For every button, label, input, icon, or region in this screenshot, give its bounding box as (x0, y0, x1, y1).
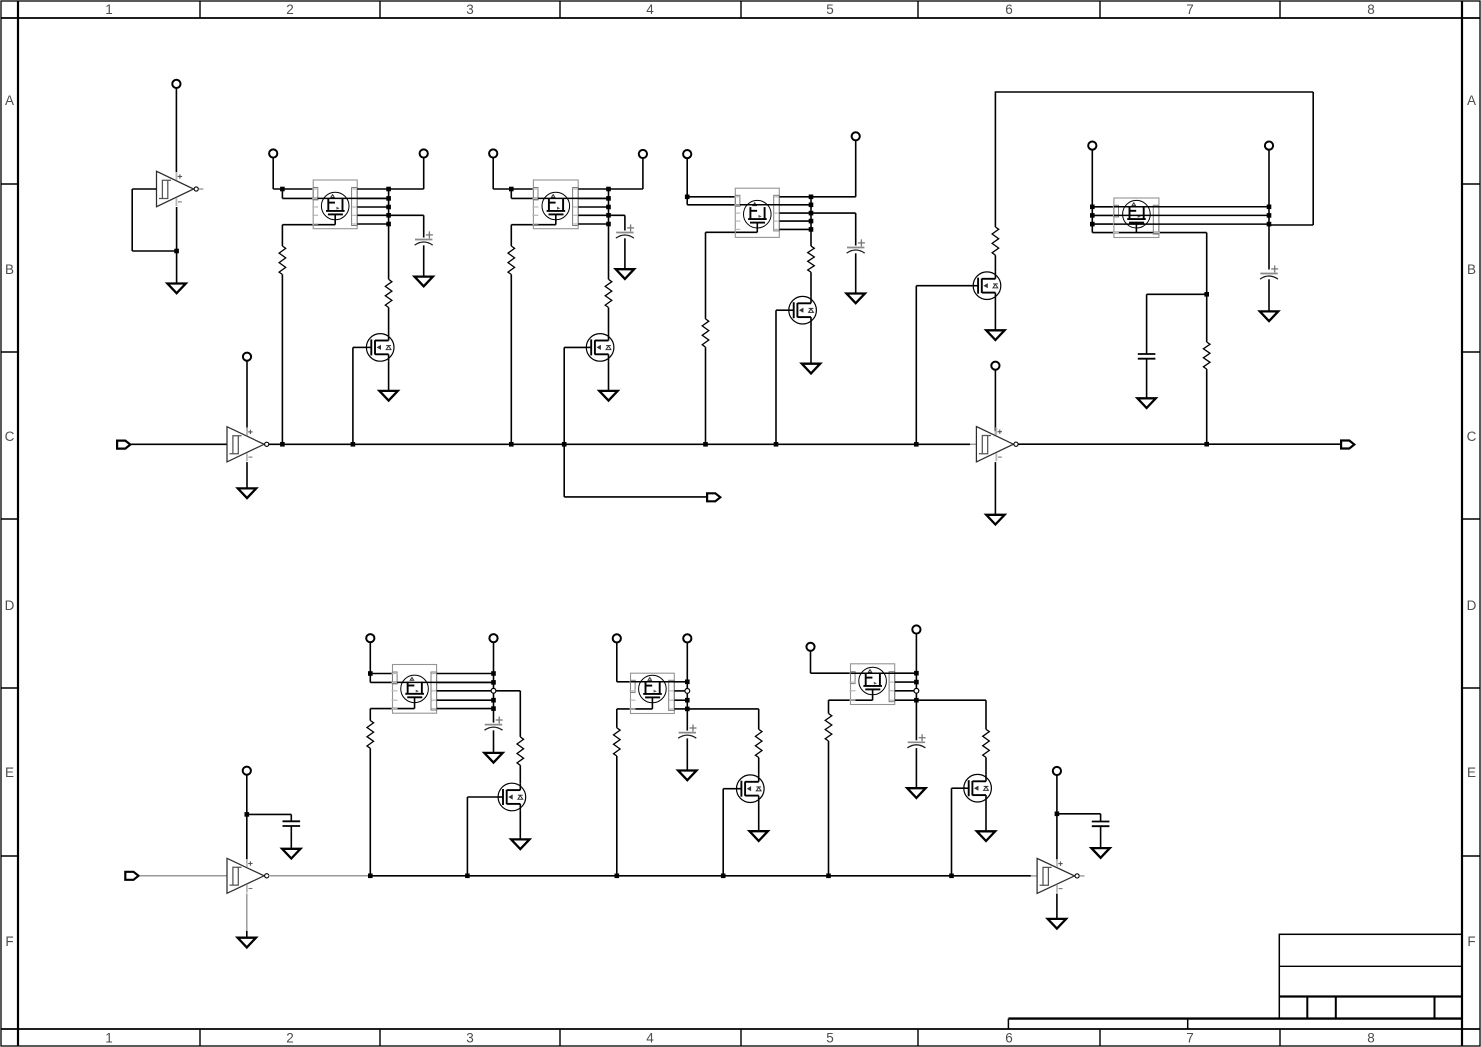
package pin wire (895, 690, 917, 692)
resistor R10 (517, 737, 524, 765)
junction (509, 442, 514, 447)
wire (369, 748, 371, 876)
resistor R1 (279, 246, 286, 275)
wire (994, 370, 996, 431)
ground G1 (167, 284, 185, 294)
resistor R14 (983, 729, 990, 757)
svg-text:C: C (1467, 429, 1477, 444)
wire (246, 775, 248, 860)
connector pin J16 (806, 643, 814, 651)
ground G7 (599, 391, 617, 401)
wire (994, 91, 996, 227)
MOSFET Q10 (498, 783, 526, 811)
wire (370, 673, 392, 675)
MOSFET Q2 (366, 334, 394, 362)
ground G21 (1091, 848, 1109, 858)
wire (705, 232, 707, 319)
connector pin J10 (1088, 142, 1096, 150)
wire (246, 894, 248, 931)
wire (1147, 293, 1207, 295)
package pin wire (674, 690, 687, 692)
ground G3 (986, 515, 1004, 525)
wire (775, 310, 777, 444)
wire (608, 189, 610, 224)
port P4 (input) (125, 872, 138, 880)
ground G19 (907, 788, 925, 798)
wire (686, 197, 688, 205)
junction (703, 442, 708, 447)
package pin wire (437, 681, 494, 683)
wire (616, 643, 618, 682)
ground G22 (1048, 919, 1066, 929)
svg-text:A: A (1467, 93, 1476, 108)
wire (369, 643, 371, 674)
junction (491, 698, 496, 703)
wire (995, 91, 1313, 93)
junction (809, 195, 814, 200)
junction (685, 195, 690, 200)
resistor R6 (808, 246, 815, 272)
junction (351, 442, 356, 447)
wire (1268, 150, 1270, 270)
wire (915, 634, 917, 741)
package pin wire (357, 188, 388, 190)
output stub (199, 188, 204, 190)
svg-text:4: 4 (646, 2, 654, 17)
svg-text:7: 7 (1186, 2, 1194, 17)
ground G20 (977, 831, 995, 841)
open pin (685, 689, 690, 694)
MOSFET Q7 (973, 272, 1001, 300)
dual MOSFET package Q11 (630, 673, 676, 713)
junction (174, 249, 179, 254)
wire (1206, 294, 1208, 342)
wire (608, 224, 610, 279)
junction (809, 227, 814, 232)
wire (1146, 359, 1148, 399)
svg-text:4: 4 (646, 1031, 654, 1046)
package pin wire (779, 204, 811, 206)
wire (1268, 279, 1270, 311)
wire (686, 738, 688, 770)
wire (608, 361, 610, 391)
package pin wire (578, 214, 608, 216)
polarized capacitor C2 (616, 224, 634, 238)
junction (562, 442, 567, 447)
wire (915, 286, 917, 445)
wire (510, 189, 512, 198)
junction (368, 874, 373, 879)
wire (369, 674, 371, 683)
wire (740, 204, 811, 206)
connector pin J13 (489, 634, 497, 642)
package pin wire (779, 196, 811, 198)
junction (1267, 205, 1272, 210)
wire (1114, 206, 1269, 208)
wire (246, 462, 248, 488)
wire (389, 214, 424, 216)
wire (370, 681, 397, 683)
op-amp buffer U4 (227, 858, 269, 893)
wire (130, 443, 227, 445)
wire (290, 826, 292, 849)
junction (606, 196, 611, 201)
svg-text:D: D (5, 598, 15, 613)
wire (466, 797, 468, 876)
supply stub (175, 172, 177, 180)
wire (131, 189, 133, 251)
junction (386, 196, 391, 201)
wire (511, 224, 556, 226)
wire (776, 309, 789, 311)
ground G14 (238, 938, 256, 948)
package pin wire (437, 708, 494, 710)
wire (985, 802, 987, 831)
package pin wire (779, 220, 811, 222)
wire (952, 787, 964, 789)
wire (1091, 150, 1093, 233)
connector pin J19 (1053, 767, 1061, 775)
package pin wire (578, 197, 608, 199)
wire (423, 245, 425, 276)
wire (563, 444, 565, 497)
wire (616, 709, 618, 728)
dual MOSFET package Q3 (532, 180, 579, 229)
svg-text:6: 6 (1005, 1031, 1013, 1046)
resistor R13 (825, 714, 832, 742)
wire (952, 875, 1031, 877)
dual MOSFET package Q8 (1113, 198, 1160, 238)
junction (1204, 442, 1209, 447)
open pin (491, 688, 496, 693)
output stub (1079, 875, 1084, 877)
wire (281, 225, 283, 246)
wire (608, 308, 610, 334)
junction (914, 671, 919, 676)
wire (994, 462, 996, 515)
svg-text:C: C (5, 429, 15, 444)
junction (826, 874, 831, 879)
junction (606, 205, 611, 210)
junction (386, 187, 391, 192)
junction (1204, 292, 1209, 297)
MOSFET Q12 (737, 775, 765, 803)
junction (606, 187, 611, 192)
wire (855, 253, 857, 293)
junction (1090, 222, 1095, 227)
wire (1114, 214, 1269, 216)
wire (538, 197, 609, 199)
wire (352, 347, 354, 444)
connector pin J3 (269, 149, 277, 157)
svg-text:5: 5 (826, 2, 834, 17)
svg-text:E: E (1467, 765, 1476, 780)
ground G4 (415, 277, 433, 287)
wire (1100, 826, 1102, 848)
junction (914, 698, 919, 703)
svg-text:2: 2 (286, 2, 294, 17)
connector pin J1 (172, 80, 180, 88)
package pin wire (674, 708, 687, 710)
junction (615, 874, 620, 879)
wire (564, 496, 707, 498)
wire (723, 788, 736, 790)
wire (810, 197, 812, 230)
ground G11 (1260, 311, 1278, 321)
ground G13 (282, 849, 300, 859)
junction (465, 874, 470, 879)
MOSFET Q14 (964, 774, 992, 802)
wire (281, 275, 283, 445)
op-amp buffer U3 (976, 427, 1018, 462)
connector pin J12 (366, 634, 374, 642)
junction (606, 213, 611, 218)
wire (705, 347, 707, 444)
MOSFET Q4 (586, 334, 614, 362)
junction (949, 874, 954, 879)
wire (273, 188, 313, 190)
wire (1100, 814, 1102, 822)
wire (1056, 894, 1058, 919)
package pin wire (578, 223, 608, 225)
package pin wire (916, 699, 986, 701)
junction (685, 680, 690, 685)
MOSFET Q6 (789, 296, 817, 324)
package pin wire (895, 672, 917, 674)
resistor R5 (702, 319, 709, 347)
package pin wire (578, 206, 608, 208)
package pin wire (687, 708, 758, 710)
wire (388, 361, 390, 391)
connector pin J8 (852, 132, 860, 140)
svg-text:5: 5 (826, 1031, 834, 1046)
junction (1090, 205, 1095, 210)
wire (810, 324, 812, 364)
package pin wire (494, 690, 521, 692)
wire (624, 238, 626, 269)
wire (829, 699, 873, 701)
wire (1146, 294, 1148, 354)
wire (855, 141, 857, 197)
wire (281, 189, 283, 198)
wire (389, 188, 424, 190)
ground G2 (238, 488, 256, 498)
connector pin J18 (243, 767, 251, 775)
package pin wire (1092, 232, 1206, 234)
package pin wire (1092, 206, 1114, 208)
op-amp buffer U2 (227, 427, 269, 462)
polarized capacitor C5 (1260, 265, 1278, 279)
svg-text:1: 1 (105, 2, 113, 17)
dual MOSFET package Q9 (392, 665, 438, 714)
resistor R2 (385, 279, 392, 307)
wire (687, 204, 740, 206)
supply stub (994, 431, 996, 436)
connector pin J15 (683, 634, 691, 642)
polarized capacitor C3 (847, 239, 865, 253)
wire (370, 708, 414, 710)
package pin wire (895, 681, 917, 683)
wire (1269, 224, 1313, 226)
wire (467, 796, 498, 798)
ground G5 (379, 391, 397, 401)
wire (916, 285, 973, 287)
wire (388, 189, 390, 224)
wire (564, 346, 586, 348)
junction (914, 680, 919, 685)
wire (1056, 775, 1058, 860)
svg-text:8: 8 (1367, 2, 1375, 17)
package pin wire (779, 212, 811, 214)
resistor R11 (614, 728, 621, 756)
wire (1206, 369, 1208, 444)
junction (685, 707, 690, 712)
wire (758, 709, 760, 729)
input stub (970, 443, 976, 445)
ground G9 (802, 364, 820, 374)
wire (811, 196, 856, 198)
connector pin J17 (912, 625, 920, 633)
polarized capacitor C8 (485, 717, 503, 731)
wire (519, 691, 521, 737)
resistor R9 (367, 721, 374, 749)
resistor R3 (508, 246, 515, 275)
junction (386, 222, 391, 227)
connector pin J5 (489, 149, 497, 157)
op-amp buffer U1 (157, 171, 199, 206)
wire (609, 188, 643, 190)
wire (828, 741, 830, 876)
wire (519, 811, 521, 840)
connector pin J4 (420, 149, 428, 157)
wire (269, 443, 971, 445)
dual MOSFET package Q5 (734, 188, 780, 237)
svg-text:2: 2 (286, 1031, 294, 1046)
ground G16 (511, 839, 529, 849)
wire (631, 681, 688, 683)
ground G10 (986, 330, 1004, 340)
junction (606, 222, 611, 227)
wire (617, 708, 653, 710)
wire (563, 347, 565, 444)
svg-text:B: B (1467, 262, 1476, 277)
wire (758, 758, 760, 775)
junction (245, 812, 250, 817)
wire (609, 214, 625, 216)
wire (510, 225, 512, 246)
connector pin J9 (991, 362, 999, 370)
wire (1312, 92, 1314, 225)
junction (1055, 812, 1060, 817)
resistor R12 (755, 729, 762, 757)
package pin wire (357, 214, 388, 216)
wire (994, 300, 996, 331)
junction (386, 213, 391, 218)
wire (915, 748, 917, 788)
svg-text:E: E (5, 765, 14, 780)
wire (370, 875, 951, 877)
svg-text:3: 3 (466, 2, 474, 17)
wire (616, 756, 618, 876)
junction (809, 211, 814, 216)
connector pin J2 (243, 353, 251, 361)
wire (810, 272, 812, 296)
capacitor C11 (1092, 822, 1110, 827)
wire (1114, 223, 1269, 225)
junction (509, 187, 514, 192)
wire (851, 672, 917, 674)
connector pin J11 (1265, 142, 1273, 150)
package pin wire (437, 690, 494, 692)
capacitor C6 (1138, 354, 1156, 359)
package pin wire (437, 673, 494, 675)
package pin wire (578, 188, 608, 190)
svg-text:F: F (1467, 934, 1475, 949)
wire (369, 709, 371, 721)
wire (176, 207, 178, 284)
resistor R8 (1203, 342, 1210, 369)
package pin wire (1092, 214, 1114, 216)
package pin wire (674, 681, 687, 683)
polarized capacitor C1 (415, 231, 433, 245)
wire (828, 700, 830, 713)
svg-text:6: 6 (1005, 2, 1013, 17)
wire (423, 158, 425, 189)
supply stub (246, 432, 248, 437)
wire (519, 765, 521, 783)
wire (388, 308, 390, 334)
wire (624, 215, 626, 230)
svg-text:7: 7 (1186, 1031, 1194, 1046)
wire (175, 88, 177, 172)
wire (1206, 233, 1208, 295)
wire (511, 197, 538, 199)
wire (686, 158, 688, 196)
svg-text:8: 8 (1367, 1031, 1375, 1046)
wire (493, 188, 533, 190)
wire (132, 188, 156, 190)
wire (140, 875, 227, 877)
svg-text:A: A (5, 93, 14, 108)
connector pin J14 (613, 634, 621, 642)
package pin wire (779, 228, 811, 230)
junction (1267, 222, 1272, 227)
dual MOSFET package Q1 (312, 180, 358, 229)
wire (722, 789, 724, 876)
wire (811, 672, 851, 674)
junction (809, 203, 814, 208)
wire (1018, 443, 1341, 445)
ground G17 (678, 771, 696, 781)
ground G18 (750, 831, 768, 841)
svg-text:F: F (5, 934, 13, 949)
wire (423, 215, 425, 237)
wire (388, 224, 390, 279)
package pin wire (357, 206, 388, 208)
wire (492, 158, 494, 189)
wire (510, 275, 512, 445)
package pin wire (357, 197, 388, 199)
wire (810, 651, 812, 673)
wire (272, 158, 274, 189)
junction (1267, 213, 1272, 218)
wire (282, 197, 317, 199)
dual MOSFET package Q13 (850, 664, 896, 705)
ground G15 (484, 753, 502, 763)
wire (855, 213, 857, 245)
wire (811, 212, 856, 214)
wire (985, 700, 987, 729)
